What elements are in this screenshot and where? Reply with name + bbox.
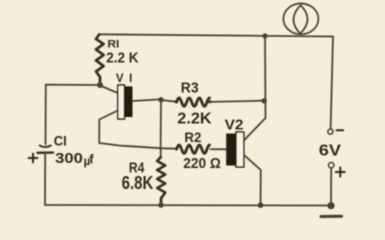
svg-text:R2: R2 [184, 129, 201, 145]
svg-text:R3: R3 [181, 80, 199, 97]
wire battery plus to bottom rail [330, 168, 332, 206]
capacitor C1 [38, 146, 54, 153]
ground [321, 215, 342, 218]
wire V1 emitter path [99, 111, 176, 149]
wire vertical top rail to V2 collector [264, 37, 267, 119]
wire C1 branch left vertical upper [45, 85, 47, 145]
resistor R3 [177, 98, 210, 106]
wire V1 collector lead [100, 86, 118, 94]
resistor R2 [177, 145, 210, 153]
svg-text:6V: 6V [319, 143, 342, 160]
wire V1 base lead [133, 99, 162, 101]
svg-text:220 Ω: 220 Ω [183, 156, 221, 172]
label plus sign [336, 167, 345, 176]
phones (earphone) [283, 4, 318, 35]
svg-text:CI: CI [54, 133, 67, 149]
wire top rail [99, 34, 333, 36]
wire right vertical to battery minus [331, 37, 333, 129]
svg-text:300: 300 [55, 150, 83, 167]
wire R3 right lead [211, 101, 265, 102]
transistor V2 [226, 132, 244, 167]
node R1 bottom / C1 / V1 collector [97, 82, 103, 88]
node V1 base / R3 / R4 branch [158, 97, 163, 102]
wire vertical V1 base node to R4 [160, 100, 162, 157]
svg-text:VI: VI [116, 73, 138, 85]
svg-text:V2: V2 [225, 117, 244, 134]
node R3 right / V2 collector branch [262, 98, 267, 103]
node bottom rail right end [327, 202, 334, 209]
resistor R4 [157, 157, 165, 205]
svg-text:6.8K: 6.8K [122, 173, 154, 193]
wire V2 collector diagonal [244, 118, 266, 141]
wire R2 right lead (V2 base) [211, 148, 227, 150]
battery terminal plus (open circle) [329, 163, 334, 168]
wire bottom rail [45, 204, 331, 207]
node V2 emitter / bottom rail [258, 202, 264, 208]
wire V2 emitter path [244, 155, 261, 205]
wire C1 to bottom rail [44, 154, 46, 206]
node top rail / battery branch [262, 33, 267, 38]
node R4 bottom / bottom rail [158, 202, 164, 208]
label C1 polarity plus [29, 154, 38, 163]
battery terminal minus (open circle) [328, 129, 333, 134]
svg-text:f: f [89, 152, 94, 167]
resistor R1 [96, 35, 104, 85]
label minus sign [337, 129, 344, 131]
wire R3 left lead [161, 100, 176, 102]
svg-text:2.2 K: 2.2 K [106, 50, 139, 67]
svg-text:2.2K: 2.2K [177, 111, 212, 128]
transistor V1 [118, 85, 133, 119]
wire R1 node horizontal [46, 84, 100, 86]
